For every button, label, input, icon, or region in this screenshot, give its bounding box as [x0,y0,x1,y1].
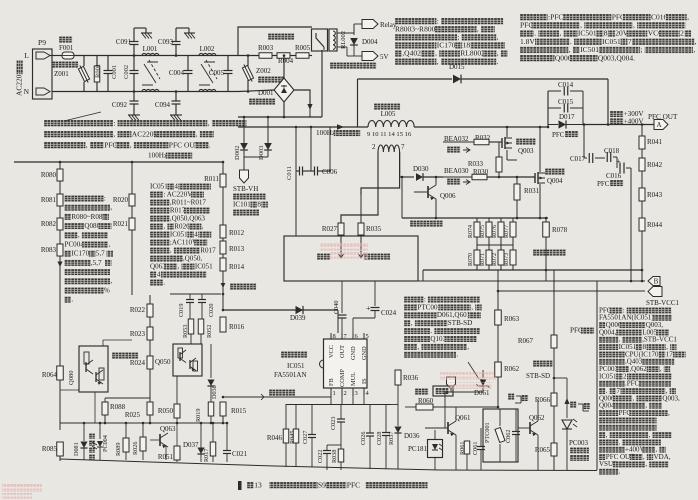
wire FB line [223,396,331,398]
svg-text:.: . [209,140,211,149]
label IC051 [281,351,307,358]
tag STB-VH [240,170,249,183]
wire bottom right bus [440,469,597,472]
diode D003 [267,117,269,143]
wire pc003 branch [553,377,556,380]
svg-text:PC003: PC003 [569,439,589,447]
svg-text:D015: D015 [449,63,465,71]
wire mid bottom bus [223,422,227,424]
svg-text:Q050: Q050 [155,358,171,366]
svg-text:D003: D003 [258,146,265,160]
dual transistor Q080 [79,346,108,392]
note block limiting resistor control [395,16,503,25]
capacitor C017 [583,125,585,159]
svg-text:VCC: VCC [328,345,335,358]
svg-text:R021: R021 [113,220,129,228]
wire R062 bottom [497,406,500,409]
label mains sample 4 [111,349,113,351]
svg-text:R023: R023 [130,330,146,338]
svg-text:C092: C092 [112,101,128,109]
wire VCC line [223,309,338,311]
wire pin8 [337,310,339,333]
svg-text:D081: D081 [73,442,80,456]
svg-text:R082: R082 [41,220,57,228]
capacitor C094 [175,90,178,93]
svg-text:L: L [24,51,29,60]
svg-text:,: , [645,460,647,468]
label overcurrent sample [533,249,566,256]
tag B [648,277,660,286]
svg-text:C016: C016 [606,172,622,180]
label normal boxed [433,386,453,396]
diode D038 [210,344,212,378]
svg-text:3: 3 [355,390,358,397]
wire comp row [286,404,392,406]
capacitor C040 [341,281,343,313]
wire sense bottom [423,269,642,271]
svg-text:R013: R013 [229,245,245,253]
svg-text:,: , [202,222,204,230]
svg-text:2: 2 [680,29,684,38]
mosfet Q003 [501,138,503,148]
dual transistor Q050 [173,344,202,376]
svg-text:A: A [656,121,661,129]
IC051 pins bottom [330,388,332,396]
svg-text:R076: R076 [492,225,498,238]
svg-text:Z002: Z002 [256,67,271,75]
wire box to B [418,280,546,282]
svg-text:IC170: IC170 [437,41,456,50]
label thermal STB-SD [533,360,553,367]
svg-text:100Hz: 100Hz [316,129,335,137]
svg-text:R089: R089 [115,443,122,456]
svg-text:C061: C061 [472,442,479,455]
resistor R089 [125,423,127,438]
svg-text:R005: R005 [295,44,311,52]
svg-text:R017: R017 [203,449,210,462]
note block anti-interference [44,118,246,127]
svg-text:R037: R037 [388,432,395,445]
svg-text:,Q050,Q063: ,Q050,Q063 [170,214,206,222]
svg-text:,: , [467,343,469,351]
svg-text:,: , [108,240,110,248]
svg-text:R042: R042 [647,161,663,169]
svg-text:+400V: +400V [624,117,645,125]
svg-text:R085: R085 [42,445,58,453]
svg-text:2: 2 [344,390,347,397]
svg-text:R019: R019 [195,409,202,422]
svg-text:IC501: IC501 [580,45,599,54]
resistor R011 [222,127,224,162]
svg-text:C062: C062 [505,430,512,443]
svg-text:MUL: MUL [350,372,357,386]
svg-text:R017: R017 [200,246,216,254]
svg-text:C017: C017 [570,155,586,163]
svg-text:4: 4 [194,230,198,238]
svg-text:C024: C024 [381,309,397,317]
svg-text:D039: D039 [290,314,306,322]
resistor R031 [516,177,518,184]
svg-text:C026: C026 [360,432,367,445]
svg-text:R070: R070 [468,253,474,266]
resistors R070-R073 [476,245,478,250]
svg-text:R044: R044 [647,221,663,229]
svg-text:R072: R072 [492,253,498,266]
svg-text:R027: R027 [322,225,338,233]
svg-text:R088: R088 [110,403,126,411]
wire Q050 top [170,293,221,295]
capacitor C006 [310,127,312,171]
IC051 box [324,339,368,388]
resistor R022 [149,295,151,304]
svg-text:C028: C028 [376,432,383,445]
svg-text:R033: R033 [468,160,484,168]
svg-text:Q063: Q063 [160,425,176,433]
chassis ground [170,114,182,116]
svg-text:8: 8 [257,200,261,208]
svg-text:VDA,: VDA, [654,453,671,461]
svg-text:R050: R050 [158,407,174,415]
svg-text:R075: R075 [480,225,486,238]
svg-text:7: 7 [628,37,632,46]
svg-text:5: 5 [366,333,369,340]
wire sense mid [477,244,513,246]
resistor R020 [131,162,133,194]
tag A [654,120,668,130]
svg-text:C001: C001 [111,65,118,79]
tag 5V [337,46,347,48]
wire top main [74,55,238,57]
svg-text:R001: R001 [95,64,102,78]
svg-text:,: , [86,140,88,149]
svg-text:R017: R017 [170,206,186,214]
svg-text:R038: R038 [331,450,338,463]
svg-text:R031: R031 [524,187,540,195]
svg-text:GND: GND [361,346,368,360]
label switch 1 [508,393,515,400]
svg-text:STB-VCC1: STB-VCC1 [646,299,680,307]
label 100Hz pulsating DC right [316,129,360,137]
resistor R042 [639,158,645,171]
relay coil RL002 [329,29,337,51]
svg-text:F001: F001 [59,44,74,52]
svg-text:R078: R078 [552,226,568,234]
capacitor C091 [133,54,136,57]
pointer line [64,112,101,121]
svg-text:C016: C016 [651,12,668,21]
svg-text:,: , [113,129,115,138]
svg-text:C022: C022 [317,450,324,463]
svg-text:R081: R081 [41,196,57,204]
svg-text:Q063: Q063 [150,262,166,270]
label mains sample 3 [112,352,138,359]
svg-text:Q003,: Q003, [662,394,680,402]
relay contact RL002 [312,29,328,51]
IC051 pins top [330,333,332,339]
svg-text:R062: R062 [504,365,520,373]
svg-text:.: . [619,438,621,446]
svg-text:RL8002: RL8002 [460,49,485,58]
svg-text:R083: R083 [41,246,57,254]
label mains sample 2 [230,283,256,290]
svg-text:C011: C011 [286,166,293,180]
svg-text:,: , [130,140,132,149]
svg-text:4: 4 [174,182,178,190]
wire BEA030 row [443,176,472,178]
resistor R004 [277,53,290,59]
svg-text:,: , [687,12,689,21]
resistors R074-R077 [476,218,478,222]
svg-text:,: , [633,394,635,402]
wire Q080 out [102,340,104,346]
svg-text:,5,7: ,5,7 [91,259,102,267]
svg-text:B: B [654,278,659,286]
svg-text:RL002: RL002 [340,31,347,49]
capacitor C092 [133,90,136,93]
svg-text:D004: D004 [362,38,378,46]
wire top L [50,55,62,57]
svg-text:D017: D017 [559,113,575,121]
label switch 2 [570,401,577,408]
wire Q004 drain [539,127,541,172]
svg-text:,: , [178,262,180,270]
wire c022 top [327,444,341,446]
note block PFC circuit [599,306,672,314]
bus left 100Hz [148,152,192,160]
svg-text:R026: R026 [174,222,190,230]
wire sources down [506,150,508,160]
svg-text:.PFC: .PFC [625,380,640,388]
wire winding left [341,152,378,223]
svg-text:C091: C091 [116,38,132,46]
wire bridge bottom [283,102,285,117]
output node wire [583,124,654,126]
label limit control relay [330,62,376,69]
svg-text:IC051: IC051 [195,262,213,270]
svg-text:R014: R014 [229,263,245,271]
wire to STB-VCC1 [498,290,645,292]
svg-text:R004: R004 [278,57,294,65]
svg-text:C094: C094 [155,101,171,109]
chassis ground [184,32,195,34]
wire Q003 drain [506,127,508,137]
svg-text:OUT: OUT [339,345,346,358]
svg-text:7: 7 [401,143,405,151]
wire switch node up [547,91,549,127]
svg-text:,: , [645,402,647,410]
svg-text:.: . [497,57,499,66]
svg-text:5V: 5V [380,53,389,61]
resistor R033 [498,142,500,155]
svg-text:Q080: Q080 [84,222,100,230]
resistor R067 [553,270,555,335]
svg-text:R016: R016 [229,323,245,331]
svg-text:1: 1 [333,390,336,397]
svg-text:,STB-VCC1: ,STB-VCC1 [642,336,677,344]
svg-text:.: . [619,468,621,476]
svg-text:R024: R024 [130,359,146,367]
svg-text:R020: R020 [113,196,129,204]
svg-text:Q006: Q006 [440,192,456,200]
svg-text:D002: D002 [234,146,241,160]
diode D002 [243,117,245,143]
svg-text:R051: R051 [158,453,174,461]
watermark red [320,243,368,259]
svg-text:L001: L001 [143,45,158,53]
junction arrow left [57,262,62,268]
capacitor C002 [133,56,135,71]
svg-text:,: , [78,231,80,239]
junction arrow [221,283,226,288]
svg-text:,: , [196,129,198,138]
varistor Z002 [247,56,249,67]
svg-text:,: , [110,204,112,212]
svg-text:,: , [437,57,439,66]
svg-text:,: , [417,343,419,351]
svg-text:PC004: PC004 [65,240,85,248]
resistor R088 [104,398,106,402]
svg-text:C004: C004 [169,69,185,77]
svg-text:4: 4 [157,270,161,278]
wire D015 right drop [607,79,609,125]
svg-text:Q062: Q062 [529,414,545,422]
svg-text:C027: C027 [302,431,309,444]
svg-text:,: , [606,431,608,439]
svg-text:IC051: IC051 [599,372,617,380]
svg-text:R080: R080 [41,171,57,179]
svg-text:C093: C093 [158,38,174,46]
bridge rectifier D001 [274,78,294,102]
label overcurrent protection [410,220,443,227]
svg-text:,: , [693,45,695,54]
svg-text::: : [113,118,115,127]
svg-text:;: ; [641,45,643,54]
resistor chain R080 [59,162,61,169]
inductor L005 [374,103,400,110]
wire winding right [399,152,401,177]
label limiting resistors [268,33,294,40]
svg-text:R052: R052 [206,325,213,338]
svg-text:;: ; [458,33,460,42]
svg-text:Q003,Q004.: Q003,Q004. [598,53,635,62]
label PFC sample [570,327,594,335]
inductor L001 bottom [142,89,159,91]
label drive pulse [317,253,330,260]
wire BEA032 row [443,141,474,143]
svg-text:,: , [660,365,662,373]
capacitor C021 [226,423,228,450]
svg-text:%: % [104,286,110,294]
svg-text:S9: S9 [318,480,326,489]
inductor L002 core [204,61,215,63]
wire bottom-left bus [60,422,223,424]
resistor R078 [545,218,547,222]
svg-text:R003: R003 [258,44,274,52]
svg-text:,: , [633,21,635,30]
svg-text:PTC001: PTC001 [417,303,441,311]
svg-text:D038: D038 [211,385,218,399]
svg-text:R012: R012 [229,229,245,237]
svg-text:C040: C040 [333,301,340,314]
relay tag Relay [337,32,354,34]
svg-text:Q004: Q004 [547,177,563,185]
svg-text:IC051: IC051 [150,182,168,190]
svg-text:.: . [430,327,432,335]
svg-text::: : [104,194,106,202]
wire bridge right [294,90,310,104]
inductor L001 core [147,61,158,63]
wire Q080 base [60,364,79,366]
svg-text:R026: R026 [132,442,139,455]
svg-text:R063: R063 [504,315,520,323]
svg-text:R073: R073 [504,253,510,266]
svg-text:100Hz: 100Hz [148,152,167,160]
svg-text:Q004: Q004 [599,402,615,410]
connector P9 box [33,49,53,99]
wire to tag B [545,270,547,281]
svg-text:R025: R025 [125,411,141,419]
svg-text:Q103: Q103 [430,335,446,343]
svg-text:R046: R046 [267,434,283,442]
label mains sample FB [269,389,295,396]
svg-text:PFC: PFC [520,21,533,30]
chassis ground [141,32,152,34]
capacitor C093 [175,54,178,57]
svg-text:,: , [208,118,210,127]
svg-text:C002: C002 [123,65,130,79]
resistor R027 [340,223,342,236]
pointer to D061 [468,362,479,379]
svg-text:C006: C006 [322,168,338,176]
label protect opto [89,433,95,439]
transistor Q006 [427,186,429,198]
svg-text:;AC110V: ;AC110V [170,238,198,246]
svg-text:PFC: PFC [347,480,360,489]
mosfet Q004 [534,173,536,183]
svg-text:,Q062: ,Q062 [629,365,647,373]
svg-text:D036: D036 [404,432,420,440]
wire bus 100Hz link [238,116,322,118]
wire D015 left drop [357,79,359,127]
svg-text:R036: R036 [403,374,419,382]
svg-text:Q003: Q003 [518,147,534,155]
note block thermal protection [404,295,480,303]
svg-text:PFC: PFC [104,140,117,149]
note block IC051 pin4 [150,182,211,190]
svg-text:R066: R066 [535,396,551,404]
svg-text:C015: C015 [558,98,574,106]
svg-text:R074: R074 [468,225,474,238]
caption [238,481,242,490]
tag STB-VCC1 [648,287,662,297]
wire zero-cross [399,152,401,160]
svg-text:,: , [668,409,670,417]
svg-text:IC051: IC051 [170,230,188,238]
svg-text:R077: R077 [504,225,510,238]
chassis ground [128,114,140,116]
svg-text:R065: R065 [535,446,551,454]
svg-text:+: + [366,304,371,313]
svg-text:1.8V: 1.8V [520,37,535,46]
svg-text:13: 13 [254,480,262,489]
svg-text:.: . [71,296,73,304]
wire Q006 vert [435,177,437,185]
svg-text:17: 17 [666,350,674,358]
svg-text:PTC001: PTC001 [484,422,491,443]
wire R063 top [497,291,499,310]
svg-text:D061: D061 [474,389,490,397]
label zero cross detect [364,253,390,260]
